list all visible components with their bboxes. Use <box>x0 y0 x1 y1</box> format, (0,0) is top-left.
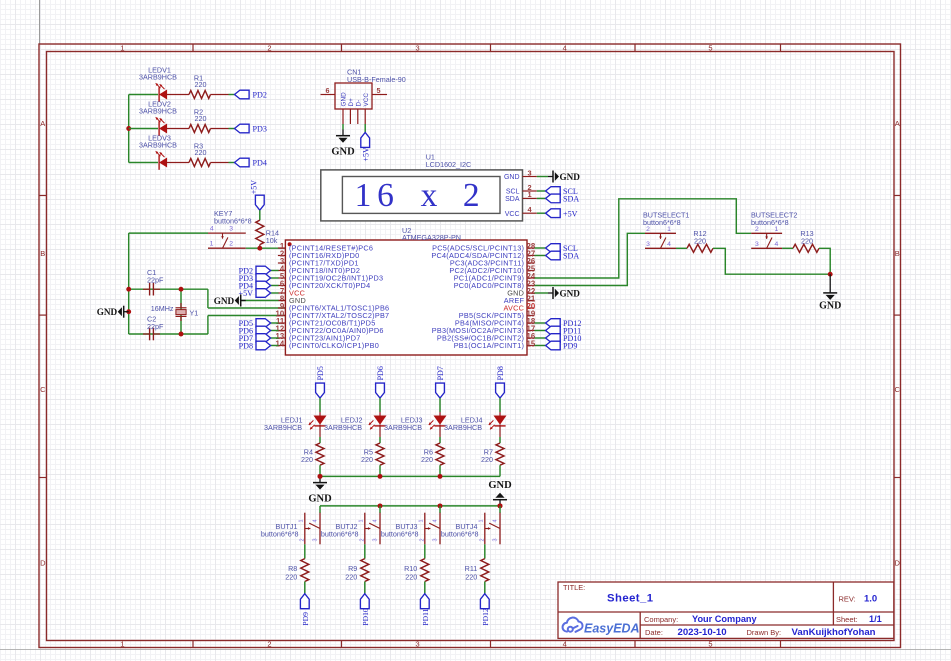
svg-text:2: 2 <box>463 177 480 214</box>
svg-text:PD6: PD6 <box>376 366 385 380</box>
svg-text:1/1: 1/1 <box>869 614 882 624</box>
svg-text:PD3: PD3 <box>253 125 267 134</box>
svg-text:button6*6*8: button6*6*8 <box>214 217 252 226</box>
svg-text:4: 4 <box>563 44 567 53</box>
svg-text:button6*6*8: button6*6*8 <box>321 530 359 539</box>
svg-text:2: 2 <box>755 226 759 233</box>
svg-text:3: 3 <box>528 168 532 177</box>
svg-text:D+: D+ <box>348 98 355 107</box>
svg-text:22pF: 22pF <box>147 275 164 284</box>
svg-text:D-: D- <box>355 100 362 107</box>
svg-text:ATMEGA328P-PN: ATMEGA328P-PN <box>402 233 461 242</box>
svg-text:Sheet_1: Sheet_1 <box>607 593 653 605</box>
svg-text:3ARB9HCB: 3ARB9HCB <box>264 423 302 432</box>
svg-text:+5V: +5V <box>250 180 259 195</box>
svg-text:3ARB9HCB: 3ARB9HCB <box>139 73 177 82</box>
svg-text:3ARB9HCB: 3ARB9HCB <box>139 141 177 150</box>
svg-text:1: 1 <box>667 226 671 233</box>
svg-text:2: 2 <box>267 44 271 53</box>
svg-text:2: 2 <box>229 241 233 248</box>
svg-text:PD8: PD8 <box>496 366 505 380</box>
svg-text:2: 2 <box>646 226 650 233</box>
svg-text:220: 220 <box>481 455 493 464</box>
svg-text:220: 220 <box>195 114 207 123</box>
svg-text:SDA: SDA <box>563 252 579 261</box>
svg-text:1: 1 <box>479 519 485 522</box>
svg-text:TITLE:: TITLE: <box>563 583 585 592</box>
svg-text:220: 220 <box>694 236 706 245</box>
svg-text:button6*6*8: button6*6*8 <box>261 530 299 539</box>
svg-text:1: 1 <box>528 190 532 199</box>
svg-text:4: 4 <box>775 241 779 248</box>
svg-text:3: 3 <box>493 538 499 541</box>
svg-text:+5V: +5V <box>563 209 578 218</box>
svg-text:x: x <box>421 177 438 214</box>
svg-text:3ARB9HCB: 3ARB9HCB <box>139 107 177 116</box>
svg-text:Drawn By:: Drawn By: <box>747 628 782 637</box>
svg-text:PD8: PD8 <box>239 342 253 351</box>
svg-text:220: 220 <box>345 572 357 581</box>
svg-text:220: 220 <box>195 80 207 89</box>
svg-text:GND: GND <box>341 92 348 107</box>
svg-text:GND: GND <box>308 493 332 504</box>
svg-text:PD10: PD10 <box>361 608 370 626</box>
svg-text:GND: GND <box>214 296 235 306</box>
svg-text:Company:: Company: <box>644 615 678 624</box>
svg-text:1: 1 <box>210 241 214 248</box>
svg-text:2: 2 <box>479 538 485 541</box>
svg-text:Your Company: Your Company <box>692 614 758 624</box>
svg-text:1.0: 1.0 <box>864 594 877 605</box>
svg-text:3ARB9HCB: 3ARB9HCB <box>384 423 422 432</box>
svg-text:PD9: PD9 <box>563 342 577 351</box>
svg-text:2: 2 <box>299 538 305 541</box>
svg-text:SCL: SCL <box>506 189 520 196</box>
svg-text:A: A <box>40 119 45 128</box>
svg-text:button6*6*8: button6*6*8 <box>441 530 479 539</box>
svg-text:5: 5 <box>708 640 712 649</box>
svg-text:220: 220 <box>421 455 433 464</box>
svg-text:3: 3 <box>755 241 759 248</box>
svg-text:4: 4 <box>373 519 379 522</box>
svg-text:5: 5 <box>377 86 381 95</box>
svg-text:1: 1 <box>419 519 425 522</box>
svg-text:C: C <box>40 385 46 394</box>
svg-text:Sheet:: Sheet: <box>836 615 858 624</box>
svg-text:14: 14 <box>276 340 285 349</box>
svg-text:3: 3 <box>313 538 319 541</box>
svg-text:220: 220 <box>301 455 313 464</box>
svg-text:15: 15 <box>527 340 536 349</box>
svg-text:220: 220 <box>405 572 417 581</box>
svg-text:button6*6*8: button6*6*8 <box>643 218 681 227</box>
svg-text:VanKuijkhofYohan: VanKuijkhofYohan <box>792 627 876 638</box>
svg-text:REV:: REV: <box>839 595 856 604</box>
svg-text:PD12: PD12 <box>481 608 490 626</box>
svg-text:GND: GND <box>819 301 841 312</box>
svg-text:3: 3 <box>416 640 420 649</box>
svg-text:4: 4 <box>210 226 214 233</box>
svg-text:220: 220 <box>465 572 477 581</box>
svg-text:VCC: VCC <box>505 211 520 218</box>
svg-text:220: 220 <box>361 455 373 464</box>
svg-text:6: 6 <box>326 86 330 95</box>
svg-text:220: 220 <box>195 148 207 157</box>
svg-text:GND: GND <box>560 288 581 298</box>
svg-text:PD2: PD2 <box>253 91 267 100</box>
svg-text:6: 6 <box>377 177 394 214</box>
svg-text:USB-B-Female-90: USB-B-Female-90 <box>347 75 406 84</box>
svg-text:Date:: Date: <box>645 628 663 637</box>
svg-text:1: 1 <box>120 44 124 53</box>
svg-text:2: 2 <box>359 538 365 541</box>
svg-text:3: 3 <box>646 241 650 248</box>
svg-text:B: B <box>40 249 45 258</box>
svg-text:GND: GND <box>97 307 118 317</box>
svg-text:220: 220 <box>801 236 813 245</box>
svg-text:3ARB9HCB: 3ARB9HCB <box>324 423 362 432</box>
svg-text:1: 1 <box>120 640 124 649</box>
svg-text:button6*6*8: button6*6*8 <box>381 530 419 539</box>
svg-text:VCC: VCC <box>363 93 370 107</box>
svg-text:button6*6*8: button6*6*8 <box>751 218 789 227</box>
svg-text:1: 1 <box>299 519 305 522</box>
svg-text:+5V: +5V <box>362 147 371 162</box>
svg-text:1: 1 <box>359 519 365 522</box>
svg-text:GND: GND <box>331 147 355 158</box>
svg-text:GND: GND <box>504 174 520 181</box>
svg-text:4: 4 <box>667 241 671 248</box>
svg-text:A: A <box>895 119 900 128</box>
svg-text:22pF: 22pF <box>147 322 164 331</box>
svg-text:4: 4 <box>313 519 319 522</box>
svg-text:GND: GND <box>560 172 581 182</box>
svg-text:B: B <box>895 249 900 258</box>
svg-text:GND: GND <box>488 480 512 491</box>
svg-text:1: 1 <box>775 226 779 233</box>
svg-text:2: 2 <box>419 538 425 541</box>
svg-text:2023-10-10: 2023-10-10 <box>678 627 727 638</box>
svg-text:PB1(OC1A/PCINT1): PB1(OC1A/PCINT1) <box>454 341 525 350</box>
svg-text:(PCINT0/CLKO/ICP1)PB0: (PCINT0/CLKO/ICP1)PB0 <box>289 341 379 350</box>
svg-text:PD11: PD11 <box>421 608 430 625</box>
svg-text:LCD1602_I2C: LCD1602_I2C <box>426 160 472 169</box>
svg-text:PD5: PD5 <box>316 366 325 380</box>
svg-text:3: 3 <box>229 226 233 233</box>
svg-text:4: 4 <box>433 519 439 522</box>
svg-text:Y1: Y1 <box>190 308 199 317</box>
svg-text:4: 4 <box>493 519 499 522</box>
svg-text:EasyEDA: EasyEDA <box>584 622 640 636</box>
svg-text:220: 220 <box>285 572 297 581</box>
svg-text:16MHz: 16MHz <box>151 304 174 313</box>
svg-text:D: D <box>40 559 46 568</box>
svg-text:SDA: SDA <box>505 196 520 203</box>
svg-text:D: D <box>894 559 900 568</box>
svg-text:10k: 10k <box>266 236 278 245</box>
svg-text:3ARB9HCB: 3ARB9HCB <box>444 423 482 432</box>
svg-text:PD4: PD4 <box>253 159 267 168</box>
svg-text:PD9: PD9 <box>301 612 310 626</box>
svg-text:3: 3 <box>433 538 439 541</box>
svg-text:C: C <box>894 385 900 394</box>
svg-text:4: 4 <box>563 640 567 649</box>
svg-text:2: 2 <box>267 640 271 649</box>
svg-text:5: 5 <box>708 44 712 53</box>
svg-text:SDA: SDA <box>563 195 579 204</box>
svg-text:1: 1 <box>355 177 372 214</box>
svg-text:3: 3 <box>416 44 420 53</box>
svg-text:3: 3 <box>373 538 379 541</box>
svg-text:PD7: PD7 <box>436 366 445 380</box>
